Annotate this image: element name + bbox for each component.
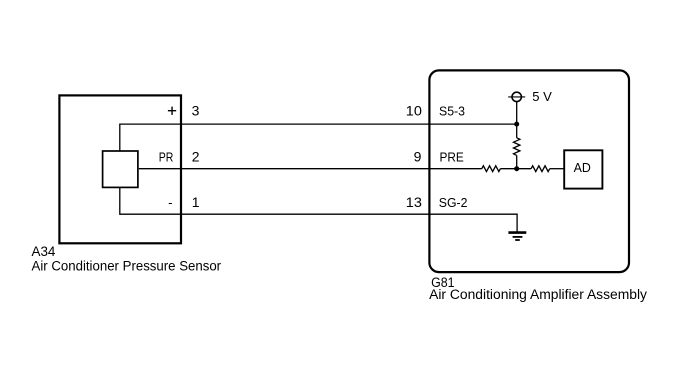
svg-text:9: 9 [414, 149, 422, 165]
wire + pin 3 to pin 10 S5-3 [120, 124, 517, 151]
svg-text:3: 3 [192, 102, 200, 118]
resistor pull-up (vertical) [514, 138, 520, 156]
svg-text:A34: A34 [32, 244, 56, 259]
amplifier assembly box G81 [429, 70, 629, 272]
connector box A34 [59, 95, 181, 243]
svg-text:Air Conditioner Pressure Senso: Air Conditioner Pressure Sensor [32, 258, 222, 273]
svg-text:PR: PR [159, 150, 174, 165]
svg-text:AD: AD [574, 160, 591, 175]
resistor series right [531, 166, 550, 172]
svg-text:1: 1 [192, 194, 200, 210]
svg-text:2: 2 [192, 149, 200, 165]
wire - pin 1 to pin 13 SG-2 and down to ground [120, 187, 517, 232]
ground symbol [508, 233, 526, 240]
svg-text:S5-3: S5-3 [439, 103, 465, 118]
pin label + [168, 107, 176, 115]
junction node S5-3 / 5V [514, 122, 519, 127]
svg-text:13: 13 [406, 194, 422, 210]
resistor series left [482, 166, 501, 172]
AD converter box [564, 150, 602, 188]
wire 5V down to S5-3 node and resistor top [516, 102, 518, 138]
svg-text:5 V: 5 V [532, 89, 552, 104]
wire resistor bottom to PRE node [516, 155, 518, 168]
junction node PRE [514, 166, 519, 171]
5V terminal line [508, 96, 525, 98]
svg-text:10: 10 [406, 102, 422, 118]
wire to AD [550, 168, 564, 170]
svg-text:PRE: PRE [440, 150, 464, 165]
pressure sensor element (inner square) [103, 151, 138, 187]
wire PRE node segment [500, 168, 531, 170]
5V terminal circle [512, 92, 521, 101]
svg-text:-: - [168, 195, 172, 210]
svg-text:Air Conditioning Amplifier Ass: Air Conditioning Amplifier Assembly [429, 287, 647, 302]
wire PR pin 2 to pin 9 PRE (left segment) [139, 168, 482, 170]
svg-text:SG-2: SG-2 [439, 195, 468, 210]
